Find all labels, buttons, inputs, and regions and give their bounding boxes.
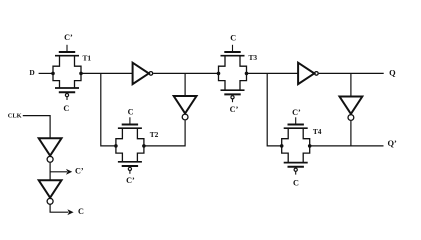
svg-text:C: C <box>63 104 69 113</box>
svg-text:T1: T1 <box>82 54 91 63</box>
svg-text:T2: T2 <box>150 130 159 139</box>
svg-text:Q: Q <box>389 69 396 78</box>
wire master feedback: rail down to T2 input <box>101 73 115 145</box>
wire I6 output down to C arrow <box>50 205 68 213</box>
node dot T1 input <box>51 72 55 76</box>
wire I4 output down to Qbar rail <box>350 121 352 146</box>
wire rail down to inverter I2 input <box>184 73 186 96</box>
svg-text:D: D <box>29 68 34 77</box>
inverter I6 (pointing down) <box>39 180 62 204</box>
svg-text:T4: T4 <box>313 127 322 136</box>
svg-text:C’: C’ <box>64 33 73 42</box>
svg-text:C’: C’ <box>230 105 239 114</box>
wire slave feedback: rail down to T4 input <box>267 73 280 145</box>
svg-text:C: C <box>293 179 299 188</box>
transmission gate T2 <box>116 117 144 174</box>
wire CLK to inverter I5 <box>23 116 50 139</box>
wire I5 output down through C' tap to inverter I6 <box>49 163 51 180</box>
wire rail down to inverter I4 input <box>350 73 352 96</box>
svg-text:C: C <box>128 107 134 116</box>
svg-text:T3: T3 <box>248 53 257 62</box>
inverter I3 <box>298 63 318 84</box>
wire I1 output to T3 input <box>153 72 218 74</box>
svg-text:C’: C’ <box>126 176 135 185</box>
wire T1 output to inverter I1 <box>81 72 133 74</box>
svg-text:CLK: CLK <box>8 112 22 119</box>
inverter I1 <box>133 63 153 84</box>
svg-text:Q’: Q’ <box>387 139 397 148</box>
wire T3 output to inverter I3 <box>247 72 299 74</box>
wire T4 output to Qbar <box>309 145 383 147</box>
arrowhead C <box>67 209 73 215</box>
transmission gate T4 <box>282 117 310 174</box>
wire tap to C' arrow <box>50 171 67 173</box>
svg-text:C’: C’ <box>75 166 84 175</box>
node dot T3 output <box>245 72 249 76</box>
node dot T1 output <box>79 72 83 76</box>
node dot T4 input <box>280 144 284 148</box>
inverter I4 (pointing down) <box>340 97 363 121</box>
inverter I5 (pointing down) <box>39 138 62 162</box>
wire I2 output down to T2 output wire <box>144 121 185 146</box>
inverter I2 (pointing down) <box>174 96 197 120</box>
transmission gate T1 <box>53 45 81 100</box>
svg-text:C’: C’ <box>292 108 301 117</box>
node dot T2 input <box>114 144 118 148</box>
node dot T2 output <box>142 144 146 148</box>
wire I3 output to Q <box>319 72 384 74</box>
node dot T3 input <box>217 72 221 76</box>
svg-text:C: C <box>230 33 236 42</box>
transmission gate T3 <box>219 45 247 102</box>
svg-text:C: C <box>78 207 84 216</box>
wire D to T1 <box>39 72 53 74</box>
node dot T4 output <box>308 144 312 148</box>
arrowhead C' <box>66 169 72 175</box>
